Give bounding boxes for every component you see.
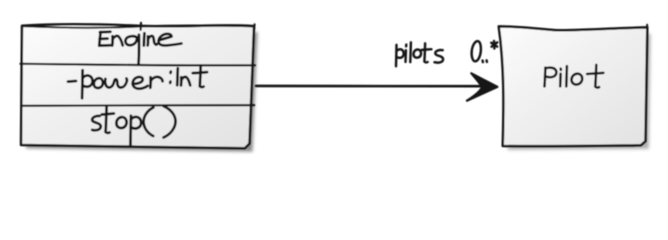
- arrowhead (filled dart): [467, 73, 498, 100]
- letter p: [396, 45, 404, 67]
- open paren: [144, 107, 154, 136]
- letter s: [435, 50, 444, 63]
- letter g (q-form with long descender): [125, 35, 139, 64]
- letter o: [116, 117, 126, 128]
- letter i (dot merged tall): [176, 68, 179, 85]
- letter p: [82, 70, 92, 98]
- letter p: [130, 116, 141, 147]
- letter w (cursive omega form): [105, 79, 127, 88]
- class Pilot box shadow: [504, 32, 651, 150]
- Engine top border second stroke (sketchy double line): [22, 25, 254, 27]
- letter o: [571, 74, 582, 85]
- letter t: [422, 43, 432, 62]
- letter E: [99, 32, 110, 46]
- letter i: [559, 69, 562, 87]
- letter o: [413, 49, 421, 57]
- letter t: [193, 66, 207, 87]
- label "pilots 0..*" (hand-drawn): [396, 41, 497, 66]
- letter n: [112, 36, 123, 46]
- letter i (tall): [142, 33, 145, 45]
- letter P: [545, 68, 557, 87]
- letter n: [148, 36, 158, 46]
- top border seam tick: [140, 23, 143, 30]
- class Engine box shadow: [26, 31, 258, 152]
- Engine compartment separator 1: [21, 64, 256, 66]
- text "Engine" (hand-drawn): [99, 32, 181, 64]
- text "-power:int" (hand-drawn): [68, 66, 207, 99]
- letter t: [102, 106, 114, 133]
- association arrow wire: [256, 85, 481, 88]
- dot: [481, 61, 484, 63]
- letter o: [94, 78, 103, 88]
- asterisk: [491, 41, 497, 49]
- colon: [169, 72, 172, 83]
- letter i: [404, 45, 407, 62]
- letter t: [587, 65, 603, 88]
- letter l: [565, 66, 568, 86]
- minus sign: [68, 80, 76, 83]
- close paren: [164, 106, 176, 137]
- Engine compartment separator 2: [22, 104, 254, 107]
- letter e with tail: [159, 34, 182, 46]
- Engine top-right corner overshoot: [253, 24, 256, 30]
- dot: [485, 60, 488, 62]
- class Pilot box (outline + fill): [499, 26, 648, 146]
- letter l: [409, 42, 412, 62]
- class Engine box (outline + fill): [21, 24, 254, 148]
- letter e: [133, 77, 148, 89]
- letter s: [92, 116, 101, 130]
- text "Pilot" (hand-drawn): [545, 65, 604, 88]
- Pilot top-right corner overshoot: [646, 25, 648, 31]
- text "stop()" (hand-drawn): [92, 106, 175, 146]
- letter n: [181, 77, 190, 86]
- letter r: [150, 77, 162, 88]
- digit 0 (slanted oval): [472, 41, 481, 61]
